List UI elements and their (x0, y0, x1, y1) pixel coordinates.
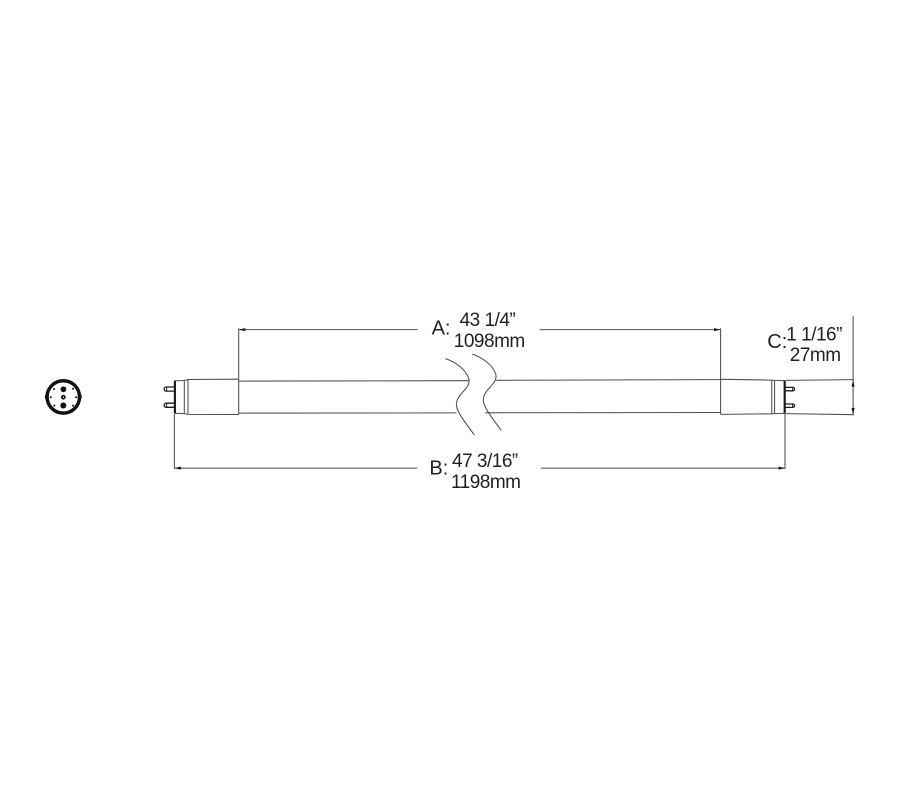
svg-text:1098mm: 1098mm (454, 331, 525, 352)
svg-text:A:: A: (432, 317, 451, 339)
svg-text:1198mm: 1198mm (451, 472, 521, 493)
svg-text:47 3/16”: 47 3/16” (452, 451, 518, 472)
svg-text:43 1/4”: 43 1/4” (460, 310, 516, 331)
svg-text:B:: B: (429, 458, 448, 480)
svg-text:C:: C: (767, 331, 787, 353)
svg-text:1 1/16”: 1 1/16” (786, 325, 842, 346)
svg-text:27mm: 27mm (790, 345, 841, 366)
